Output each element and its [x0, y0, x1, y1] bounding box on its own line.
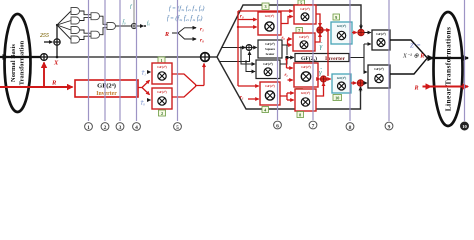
svg-text:f̄ = (f̄₃, f̄₂, f̄₁, f̄₀): f̄ = (f̄₃, f̄₂, f̄₁, f̄₀)	[167, 15, 203, 22]
svg-text:2: 2	[104, 125, 107, 131]
wire: M5 output up into xor X6	[315, 34, 320, 42]
multiplier M5 stage label 7	[296, 28, 303, 34]
stage marker 8	[346, 123, 354, 131]
wire: red mask R input	[0, 86, 73, 88]
svg-text:1: 1	[160, 58, 162, 63]
wire: red branch up into xor X1	[43, 63, 45, 88]
multiplier M1	[152, 63, 172, 84]
multiplier T10 stage label 10	[333, 95, 342, 101]
stage line 8	[349, 0, 351, 121]
wire: fan to 4 gates	[57, 11, 71, 40]
wire: M3 output into M4	[281, 17, 290, 24]
wire: arrows into M7	[286, 60, 288, 69]
wire: upper nibble diagonal and top rail	[217, 5, 361, 57]
stage marker 3	[116, 123, 124, 131]
stage line 9	[388, 0, 390, 121]
svg-text:3: 3	[119, 125, 122, 131]
multiplier PH (upper output)	[372, 30, 390, 50]
svg-text:Z′ =: Z′ =	[410, 43, 421, 50]
wire: XB output into PL	[364, 82, 367, 84]
gate G1	[71, 8, 80, 15]
svg-text:GF(2²): GF(2²)	[376, 32, 385, 36]
stage line 3	[119, 0, 121, 121]
wire: Tbar1 arrow into M1	[147, 71, 151, 73]
svg-text:f = (f₃, f₂, f₁, f₀): f = (f₃, f₂, f₁, f₀)	[169, 5, 205, 12]
svg-text:r̄₀: r̄₀	[281, 35, 285, 40]
wire: xor X2 up to gate tree fan	[56, 25, 58, 39]
stage marker 10	[461, 122, 469, 130]
multiplier T9 stage label 9	[333, 14, 340, 20]
svg-text:f̄₀: f̄₀	[123, 20, 126, 26]
svg-text:R: R	[51, 80, 57, 87]
normal basis transformation ellipse	[5, 14, 31, 112]
wire: scaler output to junction J1	[282, 45, 287, 55]
xor X3	[131, 23, 136, 28]
wire: U2 output splits up and down	[349, 44, 364, 72]
wire: J1 arrow into GF(2^2) inverter U2	[289, 57, 294, 59]
gate G7	[107, 23, 116, 30]
wire: input X into ellipse	[0, 56, 40, 58]
svg-text:10: 10	[335, 96, 339, 101]
svg-text:X⁻¹ ⊕ R: X⁻¹ ⊕ R	[402, 53, 424, 60]
wire: rbar0 arrows into M5	[287, 39, 289, 45]
gate G5	[91, 13, 99, 20]
svg-text:R: R	[164, 32, 169, 38]
multiplier M3 stage label 3	[262, 3, 269, 10]
svg-text:Normal Basis: Normal Basis	[10, 44, 17, 82]
wire: T9 output into xor XA	[352, 32, 357, 34]
wire: lower nibble diagonal and bottom rail	[217, 57, 361, 109]
wire: tree output to xor X3	[116, 25, 132, 27]
svg-text:Linear Transformations: Linear Transformations	[444, 27, 453, 112]
multiplier P1	[256, 60, 280, 79]
svg-text:8: 8	[349, 125, 352, 131]
svg-text:GF(2₂): GF(2₂)	[301, 55, 317, 62]
multiplier M2	[152, 88, 172, 109]
wire: X4 output to split vertex	[209, 56, 217, 58]
svg-text:GF(2²): GF(2²)	[263, 62, 272, 66]
svg-text:GF(2²): GF(2²)	[301, 91, 310, 95]
svg-text:GF(2²): GF(2²)	[299, 35, 308, 39]
xor X5	[246, 45, 252, 51]
svg-text:GF(2²): GF(2²)	[374, 67, 383, 71]
stage line 10	[464, 0, 466, 121]
wire: f line from top into xor X3	[133, 0, 135, 24]
svg-text:r₁: r₁	[200, 26, 204, 32]
stage line 6	[277, 0, 279, 120]
multiplier PL (lower output)	[368, 65, 390, 88]
wire: r1 arrow into M6 lower	[248, 98, 259, 100]
stage line 4	[136, 0, 138, 121]
svg-text:r̄₁: r̄₁	[284, 72, 288, 77]
svg-text:4: 4	[135, 125, 138, 131]
svg-text:255: 255	[39, 33, 49, 39]
stage marker 2	[101, 123, 109, 131]
stage line 1	[88, 0, 90, 121]
wire: R fork to r1 r0	[172, 28, 195, 39]
wire: X5 output into square scaler	[252, 47, 257, 49]
square scaler SS	[258, 40, 282, 58]
stage marker 6	[274, 121, 282, 129]
stage line 7	[312, 0, 314, 120]
svg-text:r₁: r₁	[240, 96, 244, 101]
svg-text:GF(2²): GF(2²)	[157, 65, 166, 69]
wire: tap lower diagonal up into xor X5	[219, 52, 250, 61]
wire: T10 output into xor XB	[351, 82, 356, 84]
stage line 2	[104, 0, 106, 121]
svg-text:GF(2²): GF(2²)	[337, 76, 346, 80]
multiplier M7	[294, 63, 318, 87]
svg-text:Square: Square	[265, 47, 276, 51]
svg-text:r₀: r₀	[200, 38, 204, 44]
svg-text:r₀: r₀	[240, 15, 244, 20]
svg-text:1: 1	[87, 125, 90, 131]
svg-text:GF(2²): GF(2²)	[157, 90, 166, 94]
multiplier M4	[294, 5, 316, 24]
wire: branch down to product P1 lower input	[246, 62, 249, 72]
svg-text:R: R	[414, 86, 419, 92]
multiplier T9	[331, 22, 352, 44]
multiplier M3	[258, 12, 281, 35]
wire: main masked line to xor X4	[47, 56, 200, 58]
wire: red fork from U1 to M1,M2	[138, 81, 149, 95]
linear transformations ellipse	[434, 12, 463, 126]
svg-text:GF(2²): GF(2²)	[265, 42, 274, 46]
svg-text:10: 10	[462, 124, 467, 129]
wire: P1 output to junction J1	[280, 60, 287, 64]
svg-text:GF(2²): GF(2²)	[301, 65, 310, 69]
gate G4	[71, 36, 80, 43]
wire: rail arrow into M6 upper	[238, 85, 259, 87]
svg-text:T̄₁: T̄₁	[142, 71, 147, 77]
svg-text:GF(2²): GF(2²)	[265, 14, 274, 18]
wire: PL output converging	[390, 58, 427, 74]
multiplier M2 stage label 2	[159, 110, 166, 116]
wire: X6 output into T9	[323, 29, 330, 31]
wire: XB2 output into T10	[326, 78, 330, 80]
wire: M6 output fork into M8	[280, 93, 287, 100]
xor X2 (add 255)	[54, 39, 60, 45]
wire: G5,G6 outputs to G7	[100, 16, 108, 35]
svg-text:Scaler: Scaler	[266, 52, 275, 56]
multiplier M8	[295, 89, 316, 111]
svg-text:Transformation: Transformation	[19, 40, 26, 85]
multiplier M1 stage label 1	[158, 57, 165, 63]
svg-text:GF(2²): GF(2²)	[337, 24, 346, 28]
svg-text:9: 9	[335, 15, 337, 20]
svg-text:f₀: f₀	[147, 22, 150, 27]
svg-text:GF(2²): GF(2²)	[300, 7, 309, 11]
stage marker 5	[174, 123, 182, 131]
wire: tap upper diagonal to xor X5	[222, 47, 243, 49]
wire: red vertical branch	[327, 30, 329, 76]
svg-text:X: X	[53, 60, 59, 67]
wire: Tbar0 arrow into M2	[147, 99, 151, 101]
multiplier M8 stage label 8	[297, 112, 304, 118]
wire: rail arrow into M3 upper	[238, 19, 257, 21]
wire: G1,G2 outputs to G5	[80, 11, 92, 21]
xor XA	[358, 29, 364, 35]
svg-text:3: 3	[264, 4, 266, 9]
gate G2	[71, 17, 80, 24]
svg-text:T̄₀: T̄₀	[141, 101, 146, 107]
stage line 5	[177, 0, 179, 121]
stage marker 1	[85, 123, 93, 131]
GF(2^4) inverter box U1	[75, 80, 138, 97]
svg-text:8: 8	[299, 113, 301, 118]
gate G6	[91, 31, 100, 38]
wire: R red arrow through ellipse	[423, 86, 432, 88]
wire: XA output into PH	[364, 32, 371, 34]
multiplier M7 stage label 6	[296, 89, 303, 95]
stage marker 7	[309, 121, 317, 129]
junction J1	[285, 56, 288, 59]
wire: rail arrow into M3 lower	[238, 26, 257, 28]
svg-text:5: 5	[176, 125, 179, 131]
wire: branch down to product P1 upper input	[241, 48, 249, 65]
wire: Z' thick arrow through ellipse	[427, 57, 433, 59]
svg-text:9: 9	[388, 124, 391, 130]
wire: X3 output arrow	[136, 25, 143, 27]
stage marker 9	[385, 122, 393, 130]
svg-text:GF(2⁴): GF(2⁴)	[97, 83, 116, 90]
multiplier M6 stage label 4	[262, 107, 269, 113]
xor XB	[357, 80, 363, 86]
svg-text:Inverter: Inverter	[96, 91, 117, 97]
gate G3	[71, 27, 80, 34]
junction on main line	[56, 56, 59, 59]
xor X4	[201, 53, 210, 62]
multiplier M5	[293, 33, 315, 51]
xor X1 (X xor R)	[41, 54, 48, 61]
multiplier T10	[332, 74, 351, 93]
xor X6	[317, 27, 323, 33]
wire: red rail r0 distribution	[237, 11, 239, 86]
stage marker 4	[133, 123, 141, 131]
wire: M8 output up into xor XB2	[316, 83, 324, 97]
wire: M1 M2 outputs merge up into xor X4	[172, 64, 204, 97]
svg-text:GF(2²): GF(2²)	[265, 84, 274, 88]
wire: M7 output into xor XB2	[318, 78, 320, 80]
multiplier M4 stage label 5	[298, 0, 305, 6]
svg-text:2: 2	[161, 111, 163, 116]
svg-text:7: 7	[312, 123, 315, 129]
wire: PH output converging	[390, 40, 427, 58]
wire: 255 arrow into xor X2	[44, 41, 52, 43]
wire: G3,G4 outputs to G6	[80, 30, 92, 40]
svg-text:6: 6	[276, 123, 279, 129]
GF(2^2) inverter box U2	[295, 54, 349, 62]
xor XB2	[320, 76, 326, 82]
wire: M4 output down into xor X6	[316, 14, 320, 26]
wire: up to xor X2	[56, 45, 58, 57]
multiplier M6	[260, 82, 280, 105]
